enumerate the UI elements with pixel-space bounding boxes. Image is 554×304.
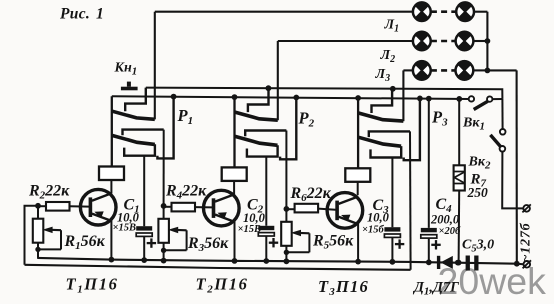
potentiometer R3 body: [158, 219, 169, 243]
wire bus B drop to relay P1 contact 2: [157, 97, 173, 159]
lamp Л2 a: [413, 32, 431, 50]
transistor T3 base bar: [335, 201, 339, 221]
node stage2 base node: [161, 203, 167, 209]
node bus B relay3 rail: [355, 95, 361, 101]
svg-text:10,0: 10,0: [367, 211, 390, 225]
svg-text:×15б: ×15б: [362, 225, 384, 236]
wire line A from Kn1 corner to Vk1 corner: [146, 88, 503, 99]
svg-text:Рис.: Рис.: [60, 6, 90, 23]
svg-text:R556к: R556к: [312, 233, 354, 252]
potentiometer R1 body: [33, 219, 44, 243]
wire node to R3: [163, 206, 165, 219]
node stage1 base node: [35, 203, 41, 209]
wire dashed between lamps row 1: [431, 10, 456, 13]
node C2 bottom: [263, 258, 269, 264]
wire Vk2 bottom to AC terminal: [502, 152, 523, 209]
relay P2 fixed contact 1 hook: [248, 88, 269, 112]
svg-text:~127б: ~127б: [519, 222, 534, 262]
node C5 left junction: [455, 260, 461, 266]
transistor T2 emitter lead with PNP arrow: [215, 215, 234, 222]
lamp Л1 b: [456, 3, 474, 21]
transistor T2 body: [204, 190, 240, 226]
relay P2 contact 2 lower bracket: [247, 145, 278, 156]
wire bus B drop to relay P2 contact 2: [280, 98, 296, 160]
wire lamp feed to relay P2 contact 1: [277, 41, 279, 120]
transistor T2 base bar: [212, 198, 216, 218]
C4 polarity plus sign: [435, 240, 437, 249]
wire coil P1 to collector: [110, 180, 112, 193]
relay coil P2: [222, 167, 247, 181]
wire emitter T3 to bus: [357, 224, 359, 262]
transistor T1 base bar: [89, 197, 93, 217]
svg-text:Т2П16: Т2П16: [196, 275, 249, 296]
wire Vk1 right stub: [493, 98, 503, 100]
svg-text:R356к: R356к: [187, 235, 229, 254]
node Vk1 left junction (R7 tap): [456, 96, 462, 102]
wire lamp common vertical: [486, 12, 488, 71]
R5 wiper arrow and return: [308, 233, 310, 252]
node emitter T3: [355, 259, 361, 265]
wire C3 bottom lead: [391, 237, 393, 261]
relay P3 fixed contact 2 bracket: [369, 131, 410, 137]
transistor T2 collector lead: [215, 194, 235, 201]
wire C2 top lead: [265, 157, 267, 226]
relay P2 fixed contact 2 bracket: [245, 131, 286, 137]
wire node to R1: [37, 206, 39, 219]
wire C2 bottom lead: [265, 236, 267, 261]
transistor T3 collector lead: [339, 197, 359, 204]
lamp Л3 b: [456, 62, 474, 80]
wire stage1 node to left feedback drop: [25, 206, 39, 265]
wire dashed between lamps row 3: [431, 69, 455, 72]
svg-text:R222к: R222к: [28, 183, 70, 202]
C2 polarity plus sign: [272, 238, 274, 247]
transistor T3 emitter lead with PNP arrow: [339, 217, 358, 224]
relay P1 fixed contact 1 hook: [125, 88, 146, 112]
node R5 bottom junction: [284, 250, 289, 255]
R1 wiper arrow and return: [60, 230, 62, 249]
node bus B relay P1 contact drop: [171, 94, 177, 100]
transistor T3 body: [327, 193, 363, 229]
wire bus B drop to relay P3 contact 2: [404, 98, 420, 160]
svg-text:Д1,Д7Г: Д1,Д7Г: [412, 280, 459, 298]
wire emitter T2 to bus: [234, 221, 236, 261]
node R3 bottom junction: [161, 248, 166, 253]
svg-text:C53,0: C53,0: [462, 238, 494, 255]
R3 wiper arrow and return: [186, 230, 188, 250]
switch Вк1: [469, 96, 474, 101]
svg-text:×15В: ×15В: [113, 223, 137, 234]
node C1 bottom: [141, 257, 147, 263]
relay P3 contact 2 lower bracket: [371, 146, 402, 157]
wire R1 bottom to bus: [37, 243, 39, 258]
relay P1 moving contact arm 1: [112, 111, 155, 119]
terminal AC bottom: [517, 263, 524, 266]
relay coil P1: [99, 167, 124, 181]
wire bus B from relay1 rail to Vk1 left terminal: [112, 96, 469, 99]
svg-text:1: 1: [96, 6, 104, 23]
relay P1 moving contact arm 2: [112, 136, 154, 145]
lamp Л2 b: [456, 32, 474, 50]
wire C1 top lead: [143, 156, 145, 227]
node lamp common row3: [485, 68, 491, 74]
wire lamp row 2 (Л2): [278, 40, 413, 42]
C3 polarity plus sign: [398, 239, 400, 248]
wire lamp row 1 (Л1): [155, 11, 413, 13]
capacitor C5 3,0: [466, 256, 470, 271]
node R7 bottom: [456, 260, 462, 266]
wire relay2 contact to stage3 node: [285, 131, 287, 209]
relay P3 fixed contact 1 hook: [372, 89, 393, 113]
wire lamp row2 right to common: [473, 40, 487, 42]
svg-text:200,0: 200,0: [430, 213, 460, 227]
wire R5 bottom to bus: [285, 246, 287, 261]
wire lamp feed to relay P3 contact 1: [402, 70, 404, 121]
wire coil P2 to collector: [233, 181, 235, 194]
relay coil P3: [345, 168, 370, 182]
node bus B relay P2 contact drop: [293, 95, 299, 101]
wire lamp common to right rail: [487, 69, 516, 71]
transistor T1 body: [80, 189, 116, 225]
relay P2 moving contact arm 1: [235, 112, 278, 120]
resistor R7 250: [458, 99, 460, 165]
resistor R6 22к: [286, 208, 294, 210]
wire C1 bottom lead: [143, 236, 145, 260]
wire lamp feed to relay P1 contact 1: [154, 12, 156, 120]
svg-text:R422к: R422к: [165, 183, 207, 202]
capacitor C4 plates: [421, 228, 437, 232]
node R1 bottom junction: [35, 247, 40, 252]
wire bus B to relay P2 coil rail: [233, 97, 235, 167]
svg-text:R622к: R622к: [290, 185, 332, 204]
pushbutton Кн1: [121, 87, 138, 91]
relay P2 moving contact arm 2: [235, 136, 277, 145]
wire right rail vertical down to bottom bus: [516, 70, 518, 263]
wire C4 top lead: [428, 99, 430, 228]
transistor T1 emitter lead with PNP arrow: [92, 214, 111, 221]
wire Vk1 corner to Vk2: [501, 99, 503, 129]
node bus B relay2 rail: [232, 94, 238, 100]
lamp Л1 a: [413, 3, 431, 21]
terminal AC top: [523, 205, 530, 212]
wire R3 bottom to bus: [163, 243, 165, 261]
node line A relay3 tap: [390, 86, 396, 92]
resistor R4 22к: [164, 206, 172, 208]
wire dashed between lamps row 2: [431, 40, 456, 43]
resistor R2 22к: [38, 205, 46, 207]
svg-text:R156к: R156к: [64, 233, 106, 252]
node stage3 base node: [284, 206, 290, 212]
wire emitter T1 to bus: [110, 220, 112, 259]
wire lamp row3 right to common: [473, 69, 487, 71]
wire C3 top lead: [391, 158, 393, 228]
node emitter T1: [109, 257, 115, 263]
node bus B relay P3 contact drop: [417, 96, 423, 102]
node C4 top on bus B: [426, 96, 432, 102]
node line A relay2 tap: [266, 85, 272, 91]
svg-text:Т1П16: Т1П16: [66, 275, 119, 296]
node lamp common row2: [485, 38, 491, 44]
wire emitter bus: [37, 258, 517, 264]
relay P1 contact 2 lower bracket: [124, 144, 155, 155]
lamp Л3 a: [413, 62, 431, 80]
switch Вк2: [500, 129, 506, 135]
node pot2 bottom: [161, 258, 167, 264]
C1 polarity plus sign: [150, 238, 152, 247]
wire bus B to relay P3 coil rail: [357, 98, 359, 168]
svg-text:×15В: ×15В: [238, 224, 262, 235]
node diode anode junction: [426, 259, 432, 265]
capacitor C2 plates: [258, 226, 274, 230]
relay P3 moving contact arm 2: [359, 137, 401, 146]
wire relay1 contact to stage2 node: [163, 130, 165, 206]
transistor T1 collector lead: [92, 193, 112, 200]
node emitter T2: [232, 258, 238, 264]
relay P3 moving contact arm 1: [359, 113, 404, 121]
node C3 bottom: [390, 259, 396, 265]
wire relay3 contact down to feedback bus: [409, 131, 412, 269]
potentiometer R5 body: [281, 222, 292, 246]
node pot3 bottom: [284, 258, 290, 264]
wire coil P3 to collector: [357, 182, 359, 195]
wire C4 bottom lead: [428, 238, 430, 262]
relay P1 fixed contact 2 bracket: [123, 130, 164, 136]
svg-text:Т3П16: Т3П16: [318, 277, 369, 298]
diode Д1 Д7Г: [437, 256, 440, 269]
svg-text:10,0: 10,0: [243, 211, 266, 225]
svg-text:×20б: ×20б: [439, 226, 461, 237]
wire bus B to relay P1 coil rail: [111, 96, 113, 166]
wire lamp row1 right to common: [474, 11, 487, 13]
wire lamp row 3 (Л3): [403, 69, 413, 71]
capacitor C3 plates: [384, 227, 400, 231]
wire node to R5: [285, 209, 287, 222]
svg-text:250: 250: [467, 185, 489, 200]
capacitor C1 plates: [136, 226, 152, 230]
wire outer feedback bus: [25, 265, 411, 270]
